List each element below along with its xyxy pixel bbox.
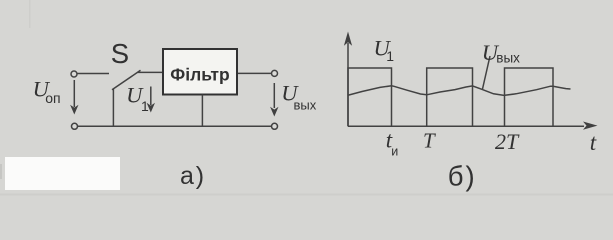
svg-text:вых: вых: [294, 98, 317, 113]
svg-text:T: T: [423, 128, 436, 152]
svg-text:и: и: [391, 144, 398, 158]
axis: horizontal t axis: [348, 122, 598, 130]
label t_i tick: [386, 128, 399, 159]
scan smudge left edge: [0, 164, 2, 179]
svg-text:оп: оп: [45, 90, 60, 106]
voltage arrow U_op: [70, 80, 78, 115]
svg-text:1: 1: [141, 98, 149, 114]
axis: vertical U axis: [344, 32, 352, 127]
svg-text:S: S: [111, 38, 129, 69]
label U_1 on graph: [374, 36, 395, 65]
wire: filter bottom to bottom rail: [201, 95, 203, 127]
scan line top left: [29, 0, 31, 28]
pulse 2 of U1 waveform: [427, 68, 473, 126]
svg-text:а): а): [180, 162, 206, 190]
svg-text:Фільтр: Фільтр: [170, 64, 229, 84]
blank whiteout box bottom-left: [5, 157, 120, 190]
pulse 1 of U1 waveform: [348, 68, 392, 126]
wire: filter output to top right terminal: [238, 72, 271, 74]
terminal: input bottom: [72, 123, 78, 129]
leader line to U_vyh label: [483, 56, 491, 89]
svg-text:б): б): [448, 161, 477, 192]
waveform U_vyh ripple: [348, 86, 571, 96]
voltage arrow U_1: [147, 87, 155, 113]
svg-text:t: t: [590, 130, 597, 155]
label U_vyh: [281, 81, 317, 113]
svg-text:вых: вых: [496, 51, 520, 66]
filter block U1: box: [163, 49, 237, 95]
scan streak bottom: [0, 194, 613, 196]
voltage arrow U_vyh: [270, 83, 278, 117]
terminal: output bottom: [272, 123, 278, 129]
svg-text:2T: 2T: [495, 129, 520, 154]
label U_op: [33, 77, 61, 106]
label U_1: [126, 82, 149, 114]
wire: switch to filter input: [138, 71, 163, 73]
terminal: output top: [272, 70, 278, 76]
svg-text:1: 1: [386, 48, 394, 64]
wire: bottom rail: [78, 125, 271, 127]
pulse 3 of U1 waveform: [505, 68, 554, 126]
switch S arm: [112, 70, 141, 90]
terminal: input top: [71, 71, 77, 77]
label U_vyh on graph: [482, 40, 520, 66]
wire: switch pole down to bottom rail: [112, 89, 114, 126]
wire: input top terminal to switch contact: [77, 73, 109, 75]
